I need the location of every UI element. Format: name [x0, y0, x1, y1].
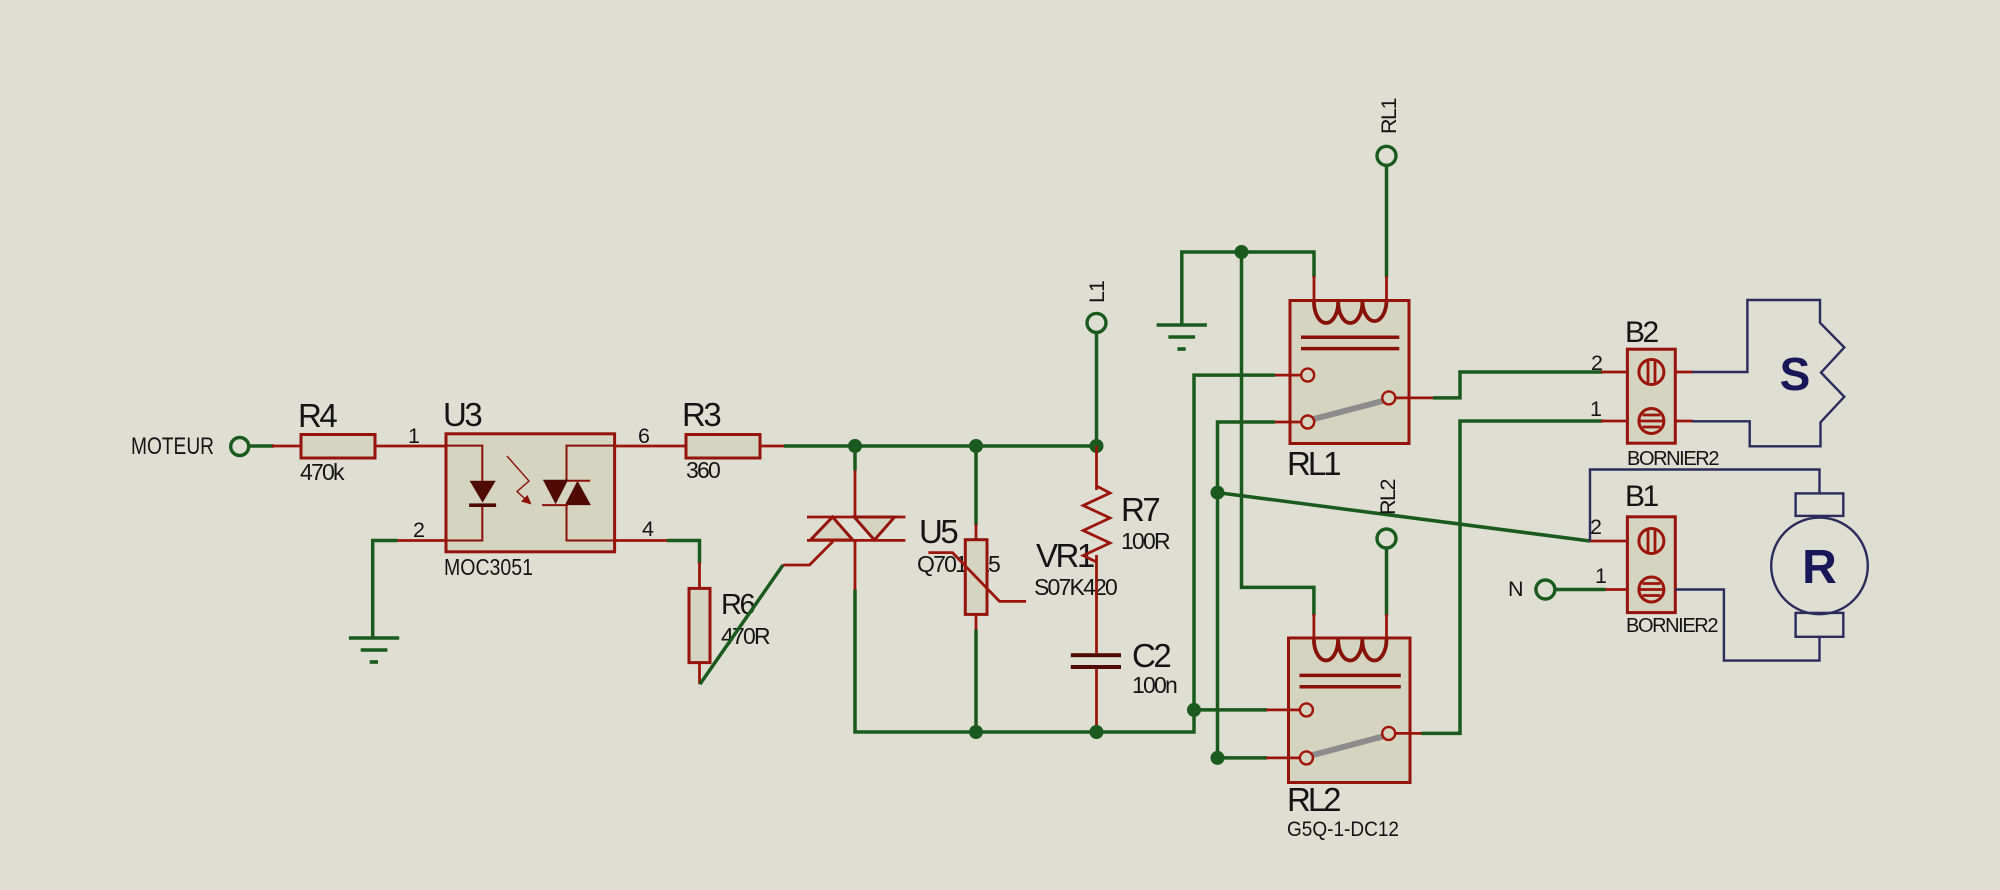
pin RL2 coil pins	[1313, 614, 1316, 645]
wire R6 to triac gate	[700, 565, 783, 684]
wire U3.4 to R6	[667, 541, 700, 564]
terminal block B2	[1627, 349, 1675, 443]
svg-text:RL1: RL1	[1287, 445, 1340, 482]
svg-text:BORNIER2: BORNIER2	[1627, 448, 1719, 470]
ground GND2	[1157, 325, 1207, 349]
wire motor R bottom to B1.1	[1675, 590, 1819, 661]
ground GND1	[349, 638, 399, 662]
svg-text:2: 2	[413, 518, 424, 542]
svg-text:U3: U3	[443, 396, 481, 433]
wire VR1 to bottom bus	[974, 630, 978, 733]
junction coil bus	[1235, 245, 1249, 259]
svg-text:R4: R4	[298, 397, 337, 434]
wire bus3 to RL2 coil	[1242, 252, 1314, 616]
svg-text:B1: B1	[1625, 480, 1659, 513]
junction bus RL2 top	[1187, 703, 1201, 717]
svg-text:G5Q-1-DC12: G5Q-1-DC12	[1287, 818, 1399, 841]
svg-text:100R: 100R	[1121, 528, 1170, 554]
svg-text:RL2: RL2	[1376, 480, 1400, 515]
wire diagonal to B1	[1218, 493, 1591, 541]
junction node triac	[848, 439, 862, 453]
pin B2.2 stub	[1601, 371, 1628, 374]
terminal L1	[1087, 313, 1106, 332]
svg-text:100n: 100n	[1132, 672, 1177, 698]
svg-text:1: 1	[1595, 564, 1606, 588]
wire main node	[784, 444, 1097, 448]
opto-coupler U3	[446, 434, 615, 552]
wire RL2 common to B2.1	[1422, 421, 1603, 733]
resistor R6	[689, 588, 710, 662]
svg-text:R3: R3	[682, 396, 720, 433]
wire bottom bus	[854, 730, 1196, 734]
svg-text:RL1: RL1	[1377, 99, 1401, 134]
pin U3.2 stub	[396, 539, 446, 542]
pin R6.2	[698, 663, 701, 685]
triac U5	[783, 469, 905, 591]
pin VR1.2	[975, 614, 978, 631]
junction node VR1 top	[969, 439, 983, 453]
resistor R7 (zigzag)	[1083, 446, 1110, 653]
pin U3.6 wire	[615, 445, 686, 448]
wire B1.2 to motor R top	[1590, 470, 1820, 542]
wire bus riser right	[1194, 375, 1275, 733]
wire ground to coil bus	[1182, 252, 1314, 324]
wire RL1 common to B2.2	[1433, 372, 1603, 398]
resistor R4	[301, 435, 375, 459]
svg-text:MOTEUR: MOTEUR	[131, 433, 214, 460]
svg-text:360: 360	[686, 457, 720, 483]
wire bus2 vertical	[1218, 422, 1276, 758]
pin B1.1 stub	[1604, 588, 1628, 591]
pin VR1.1	[975, 524, 978, 541]
svg-text:S07K420: S07K420	[1034, 574, 1117, 600]
pin RL1 coil pins	[1313, 276, 1316, 307]
terminal N	[1536, 580, 1555, 599]
wire to RL2 contact	[1194, 708, 1267, 712]
junction VR1 bottom	[969, 725, 983, 739]
svg-text:B2: B2	[1625, 316, 1659, 349]
pin R4.1	[272, 445, 301, 448]
svg-text:1: 1	[408, 424, 419, 448]
wire node to VR1	[974, 446, 978, 526]
svg-text:C2: C2	[1132, 637, 1170, 674]
relay RL2	[1266, 638, 1423, 783]
svg-text:1: 1	[1590, 397, 1601, 421]
wire RL2 terminal to coil	[1385, 548, 1389, 616]
svg-text:4: 4	[642, 517, 654, 541]
motor R	[1771, 493, 1868, 636]
svg-text:MOC3051: MOC3051	[444, 554, 533, 580]
terminal RL1	[1377, 146, 1396, 165]
junction node L1	[1090, 439, 1104, 453]
varistor VR1	[928, 540, 1026, 615]
pin B2.1 stub	[1601, 420, 1628, 423]
pin R6.1	[698, 562, 701, 589]
svg-text:470k: 470k	[300, 459, 345, 485]
wire triac top to node	[853, 445, 857, 471]
pin R3.2 stub	[760, 445, 786, 448]
svg-text:6: 6	[638, 424, 650, 448]
svg-text:2: 2	[1590, 515, 1601, 539]
device S (heater)	[1692, 300, 1844, 446]
resistor R3	[686, 435, 760, 459]
svg-text:R7: R7	[1121, 491, 1159, 528]
svg-text:N: N	[1508, 577, 1523, 601]
wire L1 down to node	[1095, 333, 1099, 448]
svg-text:R: R	[1802, 541, 1837, 594]
wire U3.2 to ground	[373, 541, 398, 638]
terminal MOTEUR	[231, 438, 249, 456]
pin U3.4 stub	[615, 539, 668, 542]
wire C2 to bus	[1095, 726, 1099, 732]
wire MOTEUR to R4	[249, 444, 275, 448]
junction C2 bottom	[1090, 725, 1104, 739]
terminal RL2	[1377, 529, 1396, 548]
wire RL1 terminal to coil	[1385, 165, 1389, 278]
pin B1.2 stub	[1590, 540, 1628, 543]
wire N to B1.1	[1555, 588, 1606, 592]
svg-text:U5: U5	[919, 513, 957, 550]
pin U3.1 wire	[375, 445, 446, 448]
capacitor C2	[1071, 653, 1121, 727]
svg-text:S: S	[1780, 348, 1811, 400]
pin B2 right stubs	[1675, 371, 1693, 374]
junction bus2 diagonal	[1211, 486, 1225, 500]
wire triac MT1 down	[853, 590, 857, 734]
svg-text:RL2: RL2	[1287, 781, 1340, 818]
terminal block B1	[1627, 517, 1675, 613]
svg-text:L1: L1	[1085, 281, 1109, 303]
svg-text:BORNIER2: BORNIER2	[1626, 615, 1718, 637]
junction bus2 RL2 bottom	[1211, 751, 1225, 765]
relay RL1	[1275, 301, 1435, 444]
svg-text:2: 2	[1591, 351, 1602, 375]
